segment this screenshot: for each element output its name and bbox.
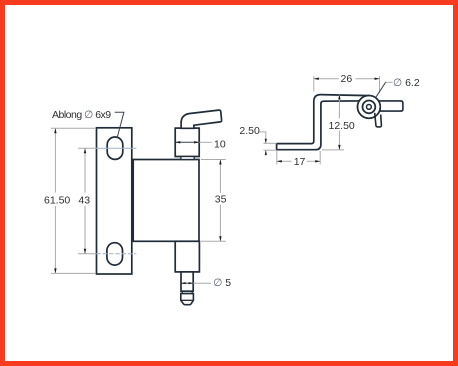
- dimension line 12.50: [338, 95, 340, 119]
- svg-text:43: 43: [78, 194, 90, 206]
- extension 17 right: [319, 151, 321, 165]
- lever handle: [181, 110, 222, 128]
- arrowheads left view: [54, 128, 221, 284]
- 2.50 lower arrow tail: [265, 150, 267, 156]
- svg-text:35: 35: [215, 194, 227, 206]
- svg-text:Ablong ∅ 6x9: Ablong ∅ 6x9: [52, 109, 111, 121]
- extension foot bottom right: [322, 149, 344, 151]
- knob flange: [181, 157, 194, 160]
- arrow 35 bottom: [219, 236, 221, 241]
- arrow 17 right: [315, 160, 320, 162]
- arrow 43 top: [84, 148, 86, 153]
- arrow dia5 right: [189, 282, 194, 284]
- svg-text:26: 26: [341, 73, 353, 85]
- bottom tab: [375, 113, 382, 127]
- arrow 12.50 top: [338, 95, 340, 100]
- main body: [133, 160, 199, 242]
- extension line plate top: [51, 127, 96, 129]
- svg-text:∅ 6.2: ∅ 6.2: [393, 77, 420, 89]
- dimension line 35: [219, 160, 221, 194]
- mounting plate: [97, 128, 132, 274]
- arrow 43 bottom: [84, 249, 86, 254]
- arrow 2.50 top: [265, 139, 267, 144]
- svg-text:17: 17: [294, 156, 306, 168]
- arrow 12.50 bottom: [338, 145, 340, 150]
- extension 26 right: [379, 76, 381, 93]
- dimension line 26: [314, 78, 339, 80]
- knuckle middle circle: [363, 101, 376, 114]
- extension foot bottom left: [264, 149, 277, 151]
- extension line plate bottom: [51, 272, 96, 274]
- pin barrel and dome tip: [181, 294, 194, 305]
- lower cylinder: [175, 241, 199, 272]
- knuckle outer circle outline overlay: [358, 96, 381, 119]
- arrow dia5 left: [181, 282, 186, 284]
- extension lines 35: [201, 159, 226, 161]
- dim line 10 inside knob: [175, 141, 199, 143]
- dimension line 43: [84, 148, 86, 192]
- leader dia 6.2 diagonal: [376, 82, 386, 97]
- arrow 61.50 bottom: [54, 268, 56, 273]
- oblong hole bottom: [107, 243, 123, 265]
- barrel top line: [181, 299, 194, 301]
- extension hole centers to 43 dim: [78, 147, 97, 149]
- pin neck groove: [181, 291, 194, 293]
- extension foot top left: [264, 142, 277, 144]
- pin: [181, 272, 193, 291]
- dimension line 61.50: [54, 128, 56, 192]
- leader dia 6.2 horizontal: [385, 81, 392, 83]
- svg-text:10: 10: [214, 139, 226, 151]
- arrow 26 left: [314, 78, 319, 80]
- svg-text:12.50: 12.50: [329, 120, 355, 132]
- right tab: [378, 101, 403, 111]
- dim line dia5 inside pin: [181, 282, 193, 284]
- centerline top hole: [96, 147, 136, 149]
- knuckle outer circle: [358, 96, 381, 119]
- extension 17 left: [276, 151, 278, 165]
- arrow 61.50 top: [54, 128, 56, 133]
- arrowheads right view: [265, 78, 380, 163]
- top knob cylinder: [175, 128, 199, 156]
- oblong hole top: [107, 137, 123, 159]
- arrow 10 left: [175, 141, 180, 143]
- leader 2.50: [260, 132, 266, 143]
- arrow 26 right: [375, 78, 380, 80]
- arrow 35 top: [219, 160, 221, 165]
- knuckle inner circle: [367, 105, 372, 110]
- dimension line 17: [277, 160, 292, 162]
- svg-text:61.50: 61.50: [44, 194, 70, 206]
- extension 26 left: [313, 76, 315, 91]
- svg-text:2.50: 2.50: [239, 125, 260, 137]
- leader ablong hole: [115, 112, 124, 137]
- arrow 10 right: [194, 141, 199, 143]
- Z bracket profile: [277, 95, 368, 150]
- centerline bottom hole: [96, 253, 136, 255]
- arrow 17 left: [277, 160, 282, 162]
- leader 10: [199, 141, 211, 143]
- svg-text:∅ 5: ∅ 5: [213, 277, 231, 289]
- leader diameter 5: [193, 282, 211, 284]
- arrow 2.50 bottom: [265, 150, 267, 155]
